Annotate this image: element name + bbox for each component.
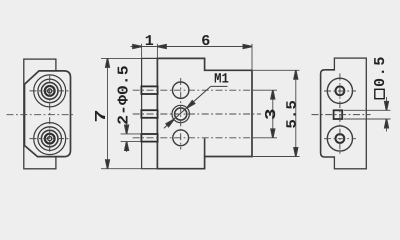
svg-text:2-Φ0.5: 2-Φ0.5	[116, 65, 133, 125]
svg-text:M1: M1	[214, 71, 229, 87]
svg-text:0.5: 0.5	[372, 55, 389, 87]
svg-text:1: 1	[145, 33, 154, 50]
svg-text:7: 7	[92, 109, 110, 122]
svg-text:6: 6	[201, 33, 210, 50]
svg-text:3: 3	[263, 108, 280, 120]
svg-text:5.5: 5.5	[285, 100, 301, 129]
